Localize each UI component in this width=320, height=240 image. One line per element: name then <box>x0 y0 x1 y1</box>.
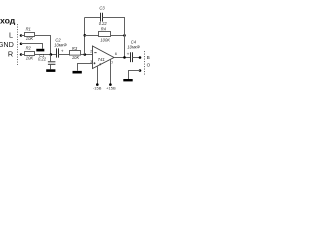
ground (input) <box>36 49 44 52</box>
svg-text:R2: R2 <box>26 45 32 50</box>
wire pin 3 to ground <box>78 64 93 71</box>
svg-text:10мкФ: 10мкФ <box>54 42 67 47</box>
resistor R3 <box>70 51 81 56</box>
ground (C1) <box>46 69 55 72</box>
pin 2 minus sign <box>94 52 96 54</box>
svg-text:+: + <box>127 53 130 58</box>
svg-text:6: 6 <box>115 51 118 56</box>
capacitor C2 <box>56 48 58 57</box>
svg-text:R3: R3 <box>72 46 78 51</box>
wire pin 7 to +15V <box>110 59 112 84</box>
node: output terminal top <box>139 56 142 59</box>
wire R1 to node A (right then down) <box>35 36 51 55</box>
svg-text:+: + <box>61 50 64 55</box>
wire R to R2 <box>21 54 25 56</box>
wire R3 to op-amp pin 2 <box>81 54 93 56</box>
svg-text:Вход: Вход <box>0 15 16 25</box>
node: output terminal bottom <box>139 69 142 72</box>
wire pin 4 to -15V <box>97 66 99 84</box>
node: R4 left junction <box>84 34 87 37</box>
capacitor C1 <box>50 55 52 62</box>
svg-text:10мкФ: 10мкФ <box>127 44 140 49</box>
svg-text:GND: GND <box>0 40 14 49</box>
svg-text:L: L <box>9 31 13 40</box>
svg-text:10K: 10K <box>72 55 80 60</box>
node A junction <box>50 53 53 56</box>
svg-text:R: R <box>8 49 13 58</box>
svg-text:+15В: +15В <box>106 86 116 91</box>
node: input connector dashed boundary <box>17 24 19 65</box>
ground (pin 3) <box>73 71 82 74</box>
node: -15V terminal <box>96 83 99 86</box>
node: pin GND terminal <box>20 42 23 45</box>
wire op-amp output <box>114 57 131 59</box>
wire to R4 <box>85 35 99 37</box>
op-amp U1 741 triangle <box>93 46 115 69</box>
resistor R4 <box>99 32 111 37</box>
wire GND pin to ground <box>21 44 43 49</box>
svg-text:7: 7 <box>111 60 114 65</box>
node: output connector dashed boundary <box>144 51 146 76</box>
svg-text:10K: 10K <box>26 56 34 61</box>
capacitor C3 <box>100 13 102 22</box>
ground (output) <box>123 79 132 81</box>
resistor R1 <box>25 33 35 37</box>
wire R4 to right vertical <box>111 35 125 37</box>
wire output ground return <box>129 71 141 80</box>
svg-text:10K: 10K <box>26 36 34 41</box>
node: pin L terminal <box>20 34 23 37</box>
svg-text:0.22: 0.22 <box>38 57 47 62</box>
wire top feedback loop right <box>103 18 125 58</box>
wire C4 to output terminal <box>133 57 141 59</box>
svg-text:Общ: Общ <box>147 63 150 68</box>
svg-text:Вых: Вых <box>147 55 150 60</box>
svg-text:100K: 100K <box>100 38 110 43</box>
wire L to R1 <box>21 35 25 37</box>
node: pin R terminal <box>20 53 23 56</box>
node: +15V terminal <box>109 83 112 86</box>
wire C2 to R3 <box>59 54 70 56</box>
svg-text:-15В: -15В <box>93 86 102 91</box>
pin 3 plus sign <box>94 62 96 64</box>
wire feedback left vertical <box>84 18 86 55</box>
svg-text:R4: R4 <box>101 27 107 32</box>
node: R4 right junction <box>123 34 126 37</box>
wire R2 to node A <box>35 54 57 56</box>
svg-text:R1: R1 <box>26 27 31 32</box>
resistor R2 <box>25 52 35 56</box>
svg-text:C3: C3 <box>99 5 105 10</box>
wire top feedback loop left <box>85 17 101 19</box>
node: output feedback junction <box>123 56 126 59</box>
node B feedback tap <box>84 53 87 56</box>
svg-text:0.22: 0.22 <box>99 21 108 26</box>
